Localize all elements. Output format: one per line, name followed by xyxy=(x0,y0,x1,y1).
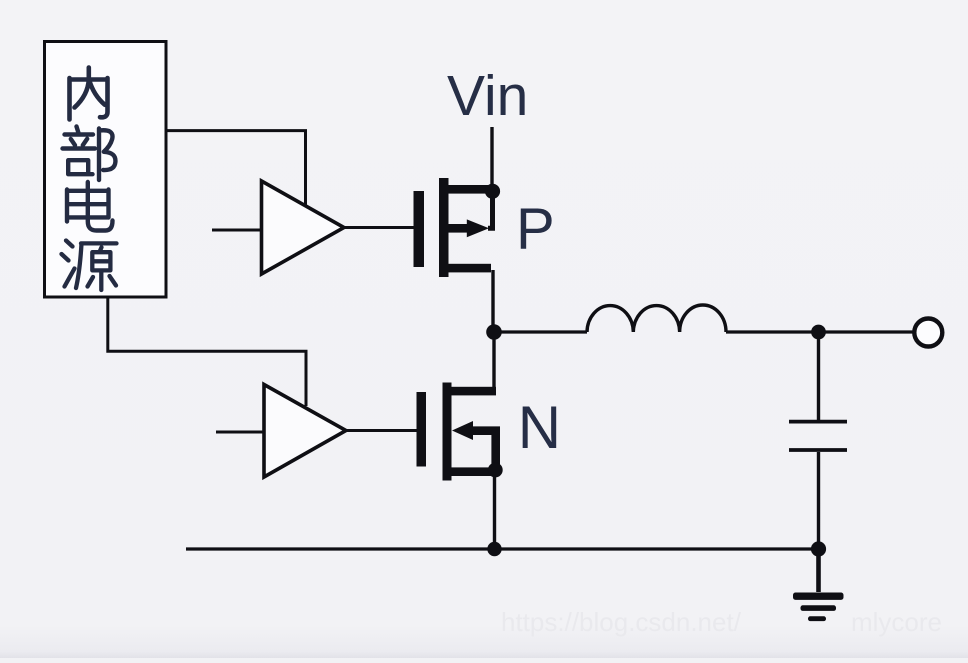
svg-text:mlycore: mlycore xyxy=(851,607,942,637)
node output junction xyxy=(811,325,826,340)
buffer U2 (lower driver) xyxy=(264,385,346,478)
node P source junction xyxy=(485,184,500,199)
node rail / N source xyxy=(487,542,501,556)
wire P body to source xyxy=(488,193,493,228)
wire ground rail xyxy=(186,547,819,550)
node rail / capacitor xyxy=(811,541,826,556)
label 源 xyxy=(62,241,117,291)
transistor N (NMOS) xyxy=(417,383,497,481)
node N source junction xyxy=(488,463,503,478)
node switch junction xyxy=(486,324,502,340)
wire P drain to switch node xyxy=(491,270,494,332)
wire switch node to inductor xyxy=(501,330,587,333)
wire inductor to output node xyxy=(726,330,812,333)
wire input stub U2 xyxy=(216,431,264,434)
inductor L1 xyxy=(587,305,726,332)
label 内 xyxy=(70,68,108,120)
label 部 xyxy=(63,127,116,181)
buffer U1 (upper driver) xyxy=(262,181,345,274)
wire Vin down to P source xyxy=(490,127,493,188)
wire to ground xyxy=(816,549,821,592)
svg-text:https://blog.csdn.net/: https://blog.csdn.net/ xyxy=(501,607,742,637)
wire N source to rail xyxy=(493,474,496,549)
ground symbol xyxy=(793,593,844,622)
label 电 xyxy=(67,182,113,231)
wire input stub U1 xyxy=(212,229,261,232)
svg-text:Vin: Vin xyxy=(447,64,528,128)
wire box to upper buffer xyxy=(166,131,306,205)
svg-text:N: N xyxy=(518,394,561,461)
wire box to lower buffer xyxy=(108,297,306,406)
wire N body to source xyxy=(471,431,496,466)
capacitor C1 xyxy=(789,422,847,450)
terminal output xyxy=(914,319,942,347)
wire capacitor to rail xyxy=(817,452,820,549)
block 内部电源 (internal supply) box xyxy=(45,42,167,298)
wire to output terminal xyxy=(825,330,913,333)
wire output node to capacitor xyxy=(817,338,820,420)
watermark text xyxy=(501,607,942,637)
transistor P (PMOS) xyxy=(414,178,492,277)
wire U1 output to P gate xyxy=(344,226,414,229)
wire switch node to N drain xyxy=(492,338,495,390)
wire U2 output to N gate xyxy=(346,429,417,432)
svg-text:P: P xyxy=(516,197,555,262)
